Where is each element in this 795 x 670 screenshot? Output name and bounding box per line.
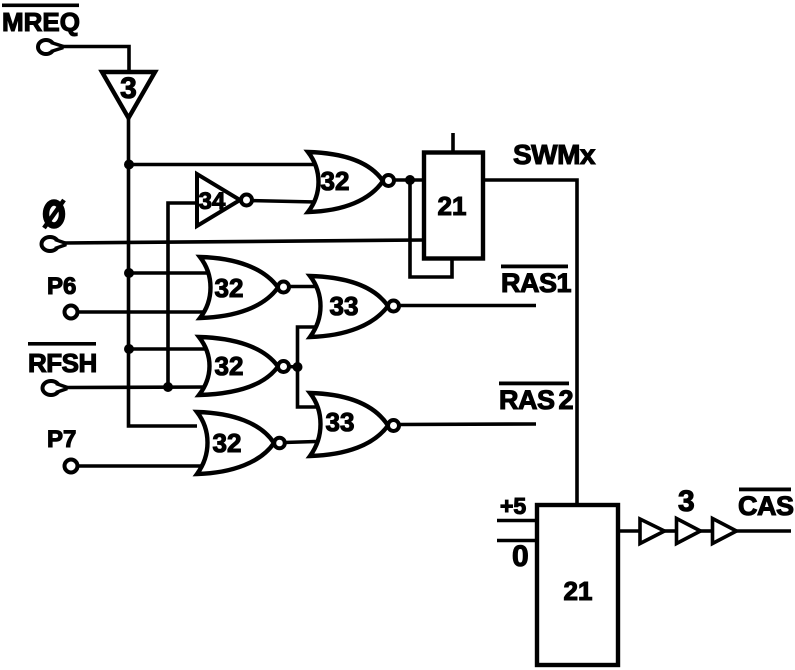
svg-text:SWMx: SWMx	[513, 139, 596, 170]
NOR gate 33a output bubble	[388, 301, 399, 312]
wire node B down to NOR 33b top input	[298, 367, 317, 407]
wire MREQ' branch to OR 32b top input	[129, 271, 212, 275]
wire node B up to NOR 33a lower input	[298, 327, 317, 367]
svg-text:0: 0	[512, 540, 529, 573]
wire RAS1 output	[398, 304, 536, 308]
wire SWMx net from 21a to 21b	[484, 180, 578, 506]
inverter U34 output bubble	[241, 195, 252, 206]
wire OR 32c output to node B	[288, 365, 298, 369]
wire buffer 1 to buffer 2	[664, 529, 677, 533]
svg-text:21: 21	[438, 191, 467, 221]
svg-text:P7: P7	[47, 426, 76, 453]
OR gate 32a	[308, 152, 383, 212]
wire OR 32a output to one-shot 21a input	[393, 178, 424, 182]
NOR gate 33b output bubble	[388, 420, 399, 431]
wire P7 input to OR 32d	[78, 464, 209, 468]
svg-text:MREQ: MREQ	[2, 7, 80, 37]
wire RAS2 output	[398, 422, 536, 426]
wire inverter output to OR gate 32a top input	[129, 163, 316, 167]
svg-text:33: 33	[330, 291, 359, 321]
OR gate 32a output bubble	[383, 175, 394, 186]
wire one-shot 21b output to buffer chain	[618, 529, 641, 533]
label MREQ overline	[2, 4, 79, 8]
svg-text:21: 21	[564, 576, 593, 606]
wire MREQ' branch to OR 32c top input	[129, 347, 211, 351]
svg-text:3: 3	[120, 72, 137, 105]
svg-text:32: 32	[215, 351, 244, 381]
svg-text:+5: +5	[500, 493, 526, 519]
one-shot 21a top stub pin	[451, 133, 455, 152]
input terminal RFSH	[43, 381, 60, 395]
input terminal P6	[65, 306, 78, 319]
svg-text:32: 32	[215, 273, 244, 303]
wire inverter 34 output to OR 32a lower input	[248, 201, 316, 203]
OR gate 32c output bubble	[278, 361, 289, 372]
wire CAS output	[736, 529, 791, 533]
buffer 3 of CAS chain	[713, 519, 737, 544]
junction node RFSH/34	[163, 382, 173, 392]
inverter U34	[197, 174, 240, 226]
svg-text:RFSH: RFSH	[28, 348, 97, 378]
junction node MREQ'/32a	[124, 160, 134, 170]
label RAS2 overline	[499, 382, 569, 386]
wire feedback from node A to one-shot 21a bottom pin	[410, 180, 452, 277]
junction node A (32a out)	[405, 175, 415, 185]
NOR gate 33a	[310, 276, 388, 337]
OR gate 32b output bubble	[278, 282, 289, 293]
label CAS overline	[739, 488, 791, 492]
wire buffer 2 to buffer 3	[700, 529, 713, 533]
label RAS1 overline	[501, 265, 568, 269]
svg-text:CAS: CAS	[738, 491, 794, 521]
svg-text:32: 32	[213, 428, 242, 458]
wire phi input line to one-shot 21a	[63, 240, 424, 243]
buffer 2 of CAS chain	[677, 519, 701, 544]
wire RFSH input line	[66, 385, 211, 389]
wire OR 32d output to NOR 33b lower input	[284, 442, 316, 443]
wire MREQ terminal to inverter input	[61, 47, 129, 73]
OR gate 32d	[197, 412, 274, 474]
OR gate 32c	[199, 337, 278, 395]
wire 0 input to one-shot 21b	[497, 539, 537, 543]
NOR gate 33b	[310, 393, 388, 456]
input terminal phi	[42, 237, 59, 251]
inverting buffer 3 (MREQ)	[102, 72, 155, 118]
junction node MREQ'/32c	[124, 344, 134, 354]
OR gate 32b	[200, 257, 278, 318]
svg-text:32: 32	[321, 166, 350, 196]
wire inverter 34 input from RFSH net	[168, 203, 199, 387]
wire OR 32b output to NOR 33a top input	[288, 285, 316, 289]
svg-text:RAS2: RAS2	[499, 385, 573, 415]
one-shot 21a	[424, 153, 483, 259]
junction node MREQ'/32b	[124, 268, 134, 278]
label RFSH overline	[28, 342, 96, 346]
junction node B (32c out)	[293, 362, 303, 372]
svg-text:33: 33	[326, 407, 355, 437]
OR gate 32d output bubble	[274, 438, 285, 449]
svg-text:P6: P6	[47, 273, 76, 300]
one-shot 21b	[537, 505, 618, 665]
wire +5 input to one-shot 21b	[497, 519, 537, 523]
label phi	[46, 203, 62, 226]
svg-text:34: 34	[199, 188, 226, 215]
wire P6 input to OR 32b	[78, 310, 212, 314]
buffer 1 of CAS chain	[640, 519, 665, 544]
svg-text:RAS1: RAS1	[501, 268, 572, 298]
input terminal MREQ	[38, 40, 54, 54]
svg-text:3: 3	[678, 485, 695, 518]
wire net MREQ' vertical bus	[129, 116, 198, 426]
input terminal P7	[65, 460, 78, 473]
